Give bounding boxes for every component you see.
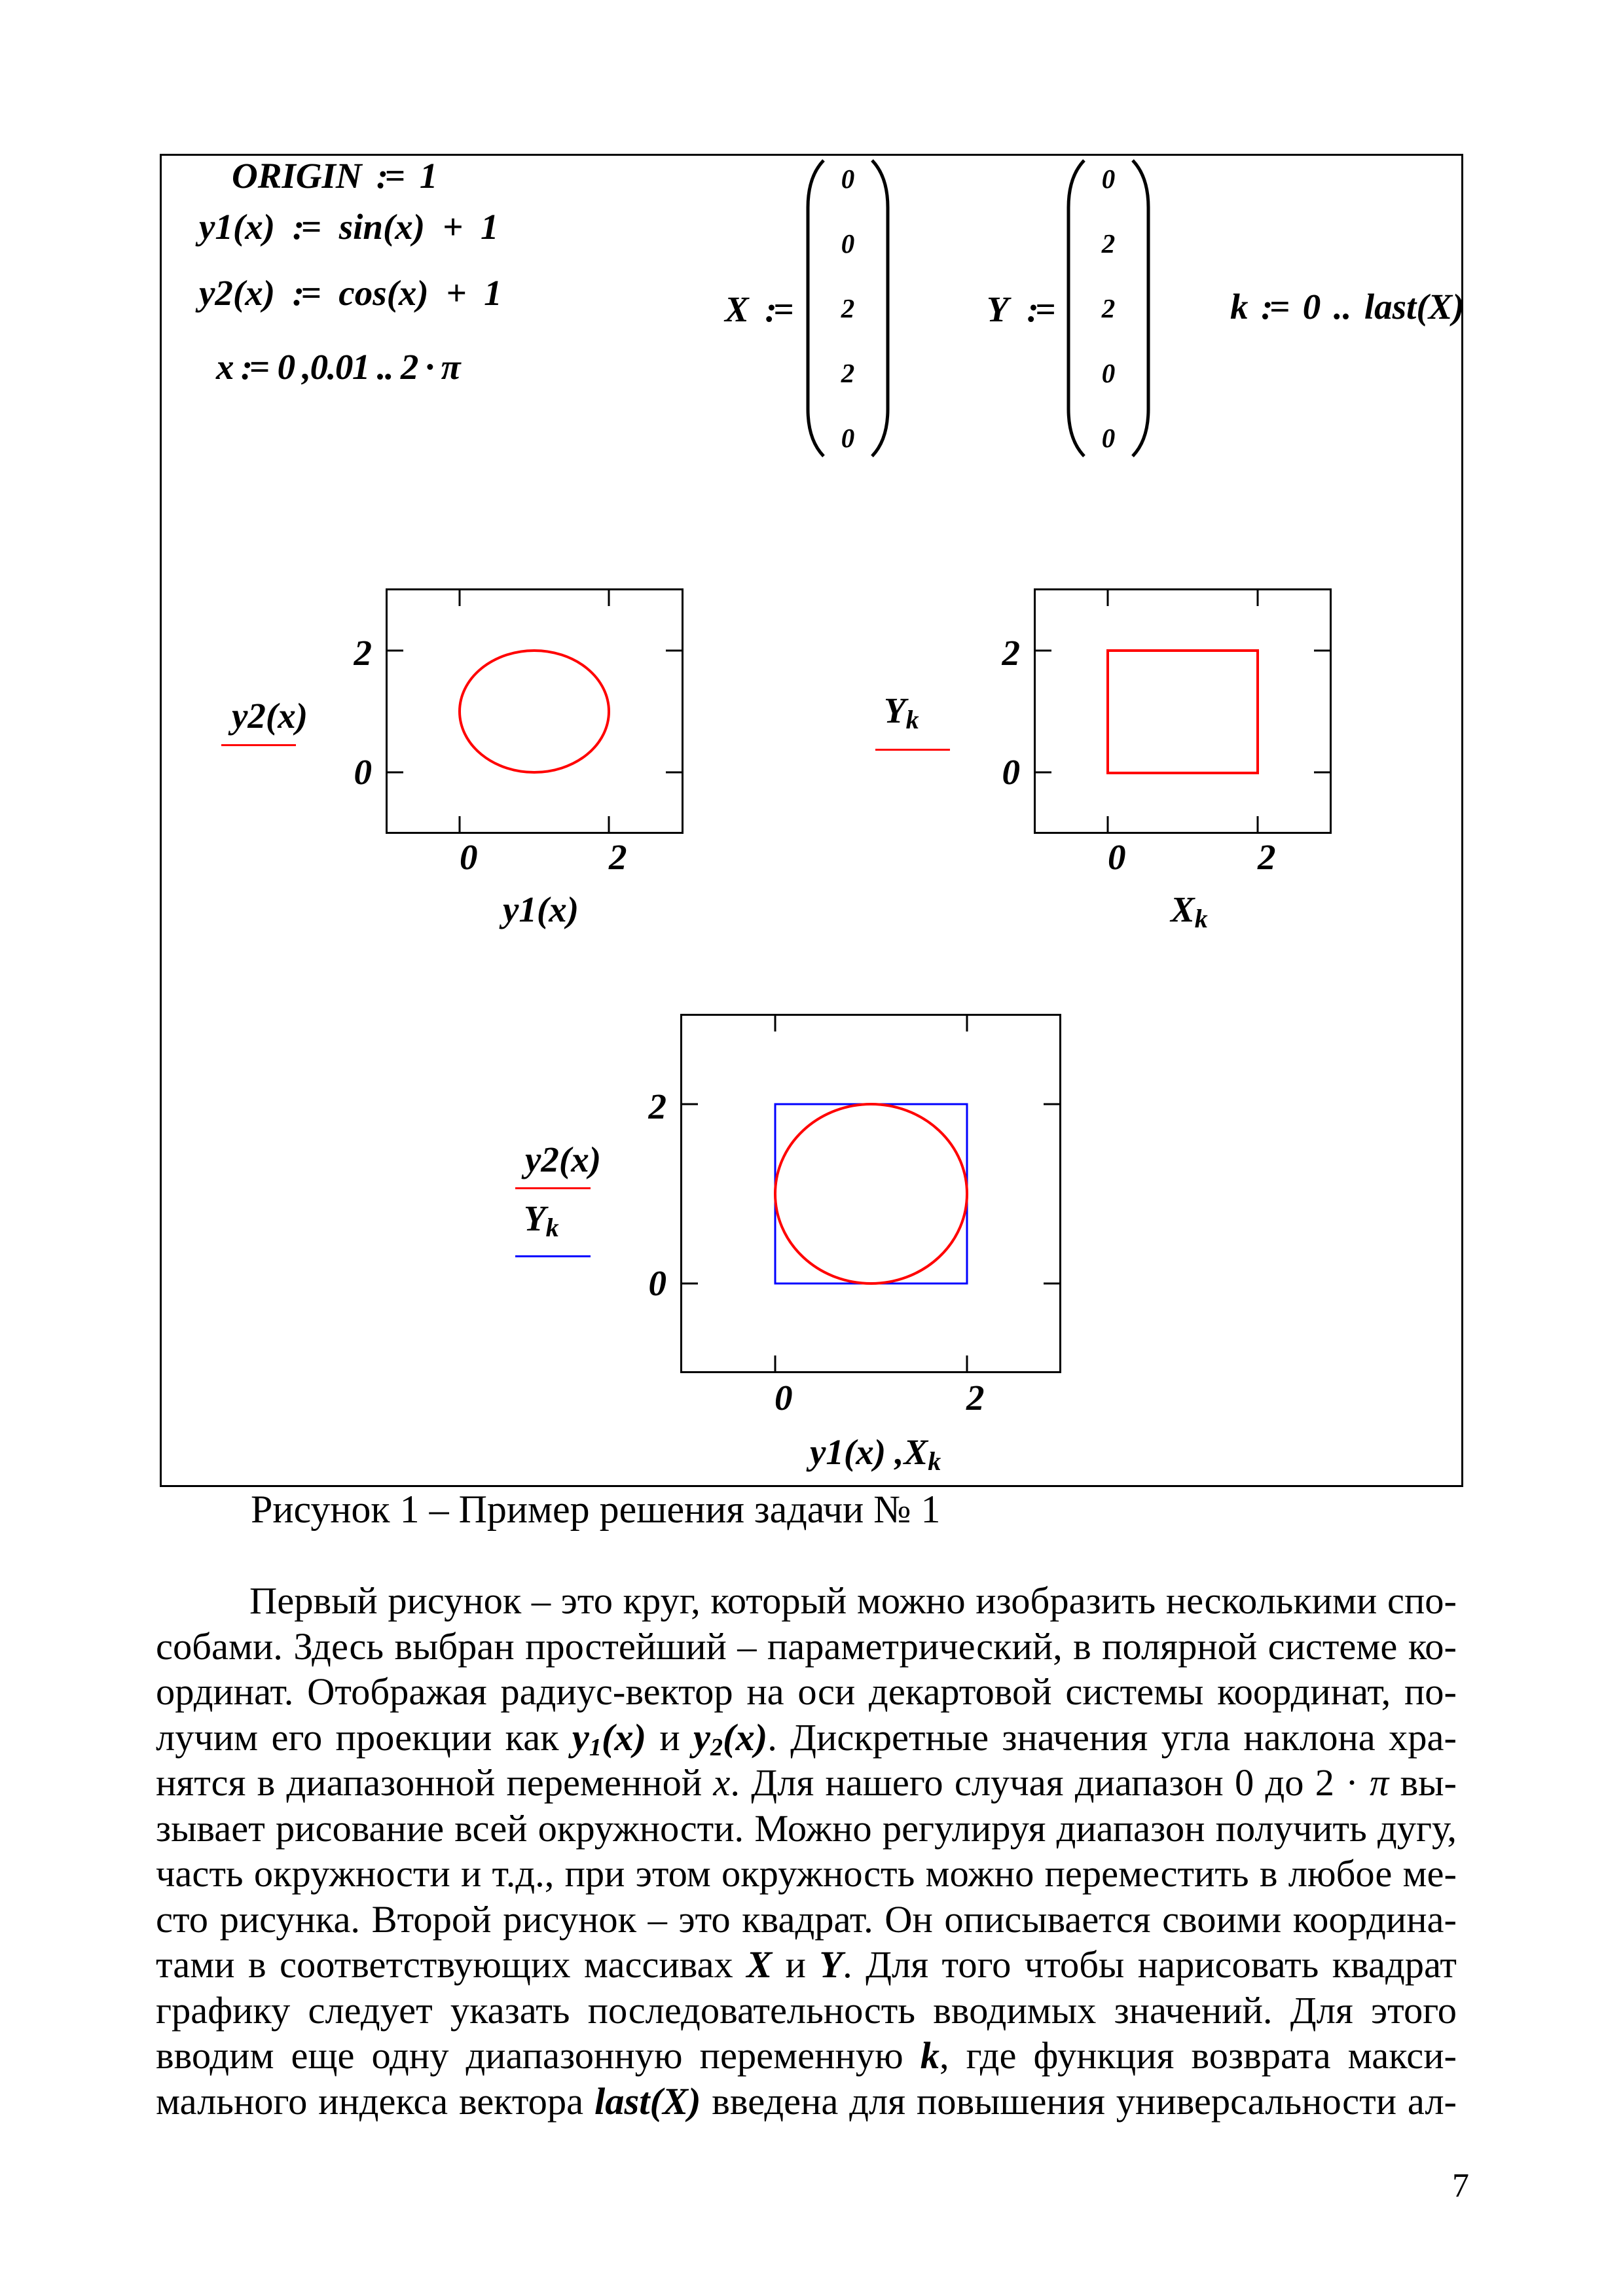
matrix Y values bbox=[1102, 147, 1116, 471]
plot2 x axis label bbox=[1171, 891, 1208, 927]
plot1 x axis label bbox=[503, 891, 579, 927]
plot3 legend bbox=[525, 1141, 601, 1177]
plot 2 (square) bbox=[1034, 588, 1332, 834]
plot1 y tick labels bbox=[321, 635, 372, 671]
math: ORIGIN bbox=[232, 158, 437, 194]
body paragraph bbox=[156, 1578, 1457, 2124]
plot3 x axis label bbox=[810, 1434, 941, 1470]
math: k range bbox=[1230, 289, 1465, 325]
plot 3 (circle + square) bbox=[680, 1014, 1061, 1373]
plot3 x tick labels bbox=[775, 1380, 793, 1416]
plot 1 (circle) bbox=[386, 588, 684, 834]
plot2 y tick labels bbox=[969, 635, 1020, 671]
math: X := bbox=[725, 291, 794, 327]
plot2 x tick labels bbox=[1108, 839, 1126, 875]
math: Y := bbox=[987, 291, 1055, 327]
matrix Y parens bbox=[1063, 158, 1154, 458]
math: y1 definition bbox=[199, 209, 498, 245]
caption bbox=[251, 1490, 941, 1529]
plot1 legend bbox=[232, 698, 308, 734]
page number bbox=[1452, 2169, 1469, 2203]
figure frame bbox=[160, 154, 1463, 1487]
matrix X values bbox=[841, 147, 855, 471]
plot2 legend bbox=[884, 692, 919, 728]
plot3 y tick labels bbox=[615, 1088, 666, 1124]
matrix X parens bbox=[802, 158, 894, 458]
math: x range bbox=[216, 349, 460, 385]
math: y2 definition bbox=[199, 275, 502, 311]
plot1 x tick labels bbox=[460, 839, 478, 875]
